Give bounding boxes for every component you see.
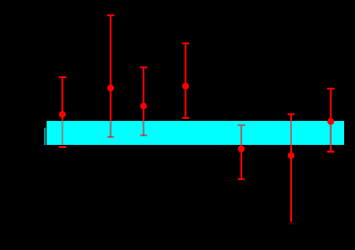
red junction dot P2 cap [110, 136, 112, 138]
error bar P3 in-band gray segment and cap [140, 121, 147, 135]
data point P6 [288, 152, 295, 159]
error bar P5 lower red part [238, 145, 245, 179]
data point P5 [238, 145, 245, 152]
data point P7 [327, 118, 334, 125]
error bar P7 lower red part [327, 145, 334, 152]
error bar P6 top red part [288, 114, 295, 121]
data point P1 [59, 111, 66, 118]
error bar P7 [327, 89, 334, 120]
error bar P2 in-band gray segment and cap [107, 121, 114, 137]
error bar P2 [107, 15, 114, 121]
cyan constant-fit band [47, 121, 345, 145]
error bar P6 lower red part [290, 145, 292, 222]
error bar P1 [59, 77, 66, 147]
error bar P6 dark bottom cap [288, 223, 294, 225]
data point P4 [182, 83, 189, 90]
error bar P4 [182, 43, 189, 118]
left axis tick (thin cyan line) [44, 128, 45, 145]
error bar P6 in-band gray segment [290, 121, 292, 145]
red junction dot P3 cap [143, 134, 145, 136]
error bar P7 in-band dull segment [330, 125, 332, 145]
error bar P1 in-band gray segment [61, 121, 63, 145]
error bar P5 in-band gray segment and top cap [238, 125, 246, 145]
error bar P3 [140, 67, 147, 121]
error bar P6 faded tail [290, 222, 292, 224]
data point P3 [140, 103, 147, 110]
data point P2 [107, 85, 114, 92]
